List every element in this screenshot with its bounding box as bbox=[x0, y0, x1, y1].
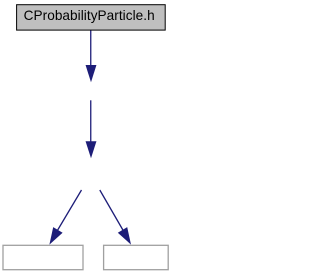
node bottom-left (empty) bbox=[3, 245, 83, 269]
svg-text:CProbabilityParticle.h: CProbabilityParticle.h bbox=[24, 8, 155, 23]
wire edge 3 (diagonal to left box) bbox=[55, 190, 82, 235]
arrowhead edge 3 bbox=[49, 227, 62, 245]
node CProbabilityParticle.h bbox=[17, 5, 166, 30]
arrowhead edge 2 bbox=[86, 141, 97, 158]
node bottom-right (empty) bbox=[104, 245, 169, 269]
wire edge 4 (diagonal to right box) bbox=[100, 190, 126, 235]
wire edge 2 (vertical) bbox=[90, 100, 92, 142]
arrowhead edge 4 bbox=[118, 227, 131, 245]
arrowhead edge 1 bbox=[86, 65, 97, 82]
wire edge 1 (vertical) bbox=[90, 31, 92, 67]
